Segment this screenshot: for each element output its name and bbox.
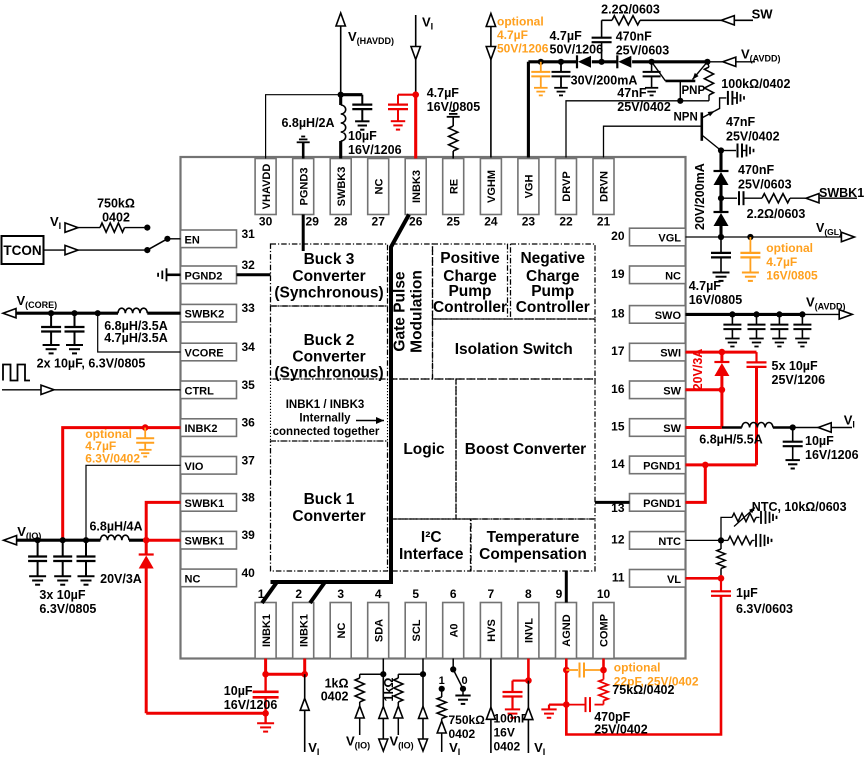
label 10uF 16V/1206 — [348, 129, 402, 157]
svg-text:NPN: NPN — [674, 112, 698, 124]
pin 16 SW (right) — [611, 381, 685, 399]
svg-text:NC: NC — [336, 623, 348, 639]
wire VGL node — [686, 221, 855, 242]
svg-text:20V/3A: 20V/3A — [100, 572, 142, 586]
pin 6 A0 (bottom) — [443, 587, 464, 659]
svg-text:A0: A0 — [448, 623, 460, 637]
svg-text:36: 36 — [242, 416, 256, 430]
wire SWI (red) — [686, 349, 757, 363]
capacitor optional 22pF (orange) — [566, 663, 603, 678]
label SWBK1 — [819, 186, 864, 200]
svg-text:TCON: TCON — [3, 243, 41, 258]
label 100nF 16V 0402 — [494, 712, 529, 754]
wire SWO rail — [686, 295, 853, 320]
svg-text:50V/1206: 50V/1206 — [550, 43, 604, 57]
wire SDA signal — [379, 674, 388, 751]
capacitor 4.7uF 16V/0805 (INBK3, red) — [388, 95, 416, 130]
capacitor 10uF 16V/1206 (HAVDD) — [341, 95, 373, 130]
pin 23 VGH (top) — [518, 159, 539, 229]
svg-text:I²C: I²C — [421, 529, 442, 546]
svg-text:Compensation: Compensation — [479, 546, 587, 563]
wire to VHAVDD pin30 — [266, 95, 341, 159]
svg-text:750kΩ: 750kΩ — [449, 713, 486, 727]
svg-text:0402: 0402 — [449, 727, 476, 741]
svg-text:SWI: SWI — [660, 348, 681, 360]
capacitor 470pF (COMP, red) — [566, 697, 603, 712]
svg-text:EN: EN — [185, 234, 200, 246]
pin 30 VHAVDD (top) — [255, 159, 276, 229]
transistor PNP — [652, 62, 708, 104]
pin 5 SCL (bottom) — [405, 587, 426, 659]
svg-text:1µF: 1µF — [736, 586, 758, 600]
svg-text:Controller: Controller — [433, 299, 507, 316]
pin 38 SWBK1 (left) — [181, 490, 256, 511]
node V(HAVDD) — [336, 13, 394, 98]
wire VL (red) — [686, 575, 725, 582]
ground AGND (red) — [541, 705, 566, 718]
svg-text:NTC, 10kΩ/0603: NTC, 10kΩ/0603 — [752, 500, 847, 514]
capacitor optional 4.7uF 50V (orange) — [531, 62, 550, 96]
pin 40 NC (left) — [181, 566, 256, 587]
label 20V/3A — [100, 572, 142, 586]
node VGHM arrows — [486, 14, 495, 158]
svg-text:47nF: 47nF — [617, 86, 647, 100]
pin 37 VIO (left) — [181, 453, 256, 474]
wire INVL (red) — [525, 659, 532, 684]
wire VIO — [86, 465, 181, 540]
label V(IO) scl — [390, 734, 414, 751]
label 75k/0402 — [612, 683, 674, 697]
node V(CORE) — [3, 293, 118, 318]
inductor 6.8uH/4A — [100, 535, 180, 543]
svg-text:RE: RE — [448, 179, 460, 194]
capacitor 100nF (INVL, red) — [503, 681, 529, 718]
wire HVS — [486, 659, 495, 754]
capacitor VIO-1 — [28, 537, 47, 585]
svg-text:4.7µH/3.5A: 4.7µH/3.5A — [104, 331, 167, 345]
svg-text:32: 32 — [242, 258, 256, 272]
label 2x10uF — [37, 356, 146, 370]
svg-text:INBK1: INBK1 — [261, 614, 273, 647]
capacitor 470nF 25V/0603 (top) — [592, 20, 612, 62]
svg-text:2.2Ω/0603: 2.2Ω/0603 — [601, 3, 660, 17]
IC package outline — [181, 157, 686, 659]
capacitor VIO-2 — [53, 537, 72, 585]
svg-text:15: 15 — [611, 420, 625, 434]
svg-text:50V/1206: 50V/1206 — [497, 42, 549, 56]
wire PGND2 to Buck3 — [237, 273, 271, 276]
svg-text:SWBK2: SWBK2 — [185, 309, 225, 321]
label 5x 10uF 25V/1206 — [772, 359, 826, 387]
svg-text:Buck 2: Buck 2 — [304, 332, 355, 349]
diode 20V/200mA #1 — [714, 151, 729, 213]
pin 11 VL (right) — [612, 570, 686, 588]
resistor 750k 0402 (EN) — [100, 223, 150, 232]
diode 30V/200mA #2 — [617, 55, 631, 68]
svg-text:CTRL: CTRL — [185, 385, 215, 397]
wire DRVN to NPN base — [604, 126, 702, 157]
block Buck 3 Converter — [271, 244, 388, 306]
svg-text:SDA: SDA — [373, 619, 385, 642]
wire SW pin15 (red) — [686, 426, 722, 429]
svg-text:25V/0603: 25V/0603 — [616, 43, 670, 57]
svg-text:Modulation: Modulation — [409, 270, 426, 353]
svg-text:20: 20 — [611, 229, 625, 243]
diode 20V/3A (red) — [139, 540, 154, 713]
label 6.8uH/4A — [89, 519, 142, 533]
label 2.2R/0603 (SWBK1) — [747, 207, 806, 221]
wire NTC node — [686, 537, 725, 543]
wire SW pin16 (red) — [686, 388, 722, 391]
svg-text:optional: optional — [614, 661, 661, 675]
svg-text:22: 22 — [559, 215, 573, 229]
wire TempComp to AGND pin9 — [565, 571, 568, 603]
label 470nF 25V/0603 (NPN) — [738, 163, 792, 192]
wire DRVP to PNP base — [566, 101, 709, 158]
note text — [273, 399, 384, 438]
capacitor optional 4.7uF (INBK2, orange) — [136, 428, 154, 457]
pin 35 CTRL (left) — [181, 378, 256, 399]
svg-text:2: 2 — [295, 587, 302, 601]
svg-text:10µF: 10µF — [805, 434, 834, 448]
svg-text:37: 37 — [242, 453, 256, 467]
svg-text:30: 30 — [259, 215, 273, 229]
capacitor optional 4.7uF (VGL, orange) — [740, 237, 760, 281]
svg-text:24: 24 — [484, 215, 498, 229]
pin 39 SWBK1 (left) — [181, 528, 256, 549]
svg-text:19: 19 — [611, 267, 625, 281]
inductor 6.8uH/2A — [341, 95, 346, 159]
wire SCL signal — [419, 674, 428, 751]
node V_I (INVL) — [524, 681, 545, 757]
svg-text:VGH: VGH — [524, 175, 536, 199]
svg-text:34: 34 — [242, 340, 256, 354]
svg-text:21: 21 — [597, 215, 611, 229]
resistor 1k/0402 (SDA) — [355, 659, 386, 736]
svg-text:0402: 0402 — [321, 690, 349, 704]
pin 20 VGL (right) — [611, 228, 685, 246]
pin 33 SWBK2 (left) — [181, 301, 256, 322]
svg-text:2.2Ω/0603: 2.2Ω/0603 — [747, 207, 806, 221]
pin 4 SDA (bottom) — [368, 587, 389, 659]
EN select switch — [147, 236, 180, 250]
wire AGND (red) — [563, 659, 570, 735]
label 4.7uF 16V/0805 (VGL) — [689, 279, 743, 307]
svg-text:3: 3 — [337, 587, 344, 601]
switch A0 — [439, 659, 468, 692]
label 6.8uH/2A — [281, 116, 334, 130]
svg-text:5: 5 — [412, 587, 419, 601]
svg-text:16V/0805: 16V/0805 — [766, 268, 818, 282]
svg-text:4.7µF: 4.7µF — [766, 255, 797, 269]
svg-text:6.3V/0805: 6.3V/0805 — [39, 602, 96, 616]
pin 7 HVS (bottom) — [480, 587, 501, 659]
node V_I (INBK3) — [411, 15, 433, 95]
svg-text:Converter: Converter — [292, 508, 365, 525]
diode 20V/3A boost (red) — [714, 352, 729, 427]
block Isolation Switch — [433, 319, 596, 379]
resistor at RE pin — [447, 111, 460, 159]
block Buck 2 Converter — [271, 306, 388, 382]
svg-text:6.8µH/5.5A: 6.8µH/5.5A — [699, 433, 762, 447]
label optional 22pF (orange) — [614, 661, 699, 689]
capacitor 1uF 6.3V/0603 (red) — [566, 578, 731, 734]
pin 14 PGND1 (right) — [611, 456, 685, 474]
svg-text:4.7µF: 4.7µF — [689, 279, 722, 293]
pin 31 EN (left) — [181, 227, 256, 248]
svg-text:INBK2: INBK2 — [185, 423, 218, 435]
label 2.2R/0603 (top) — [601, 3, 660, 17]
label 470nF 25V/0603 — [616, 29, 670, 57]
svg-text:AGND: AGND — [561, 614, 573, 646]
pin 22 DRVP (top) — [556, 159, 577, 229]
svg-text:PGND1: PGND1 — [643, 460, 681, 472]
resistor 2.2R/0603 (SW) — [602, 16, 753, 25]
svg-text:4.7µF: 4.7µF — [550, 29, 583, 43]
svg-text:Gate Pulse: Gate Pulse — [392, 271, 409, 351]
svg-text:VIO: VIO — [185, 461, 204, 473]
pin 28 SWBK3 (top) — [330, 159, 351, 229]
svg-text:INBK1 / INBK3: INBK1 / INBK3 — [286, 399, 365, 411]
svg-text:14: 14 — [611, 457, 625, 471]
pin 10 COMP (bottom) — [593, 587, 614, 659]
svg-text:Buck 1: Buck 1 — [304, 491, 355, 508]
wire TCON to switch — [44, 245, 151, 254]
block Buck 1 Converter — [271, 441, 388, 571]
wire PGND1 (red) — [686, 462, 757, 503]
diode 30V/200mA #1 — [577, 55, 591, 68]
svg-text:SWBK3: SWBK3 — [336, 167, 348, 207]
diode 20V/200mA #2 — [714, 195, 729, 237]
svg-text:6: 6 — [450, 587, 457, 601]
pin 26 INBK3 (top) — [405, 159, 426, 229]
wire SWBK1 pin38 (red) — [146, 502, 180, 540]
svg-text:6.3V/0402: 6.3V/0402 — [85, 451, 140, 465]
label optional 4.7uF 16V/0805 (orange) — [766, 241, 818, 282]
svg-text:18: 18 — [611, 306, 625, 320]
svg-text:35: 35 — [242, 378, 256, 392]
label 20V/200mA — [693, 163, 707, 230]
label optional 4.7uF 6.3V/0402 — [85, 427, 140, 466]
block Negative Charge Pump Controller — [511, 244, 596, 319]
svg-text:Negative: Negative — [520, 250, 585, 267]
label 6.8uH/5.5A — [699, 433, 762, 447]
label 6.8uH/3.5A — [104, 319, 167, 345]
svg-text:1kΩ: 1kΩ — [325, 677, 349, 691]
label optional 4.7uF 50V/1206 (orange) — [497, 15, 549, 56]
svg-text:Logic: Logic — [403, 441, 445, 458]
svg-text:25V/1206: 25V/1206 — [772, 373, 826, 387]
pin 17 SWI (right) — [611, 343, 685, 361]
svg-text:Controller: Controller — [516, 299, 590, 316]
svg-text:0402: 0402 — [494, 740, 521, 754]
resistor 75k/0402 (COMP, red) — [599, 659, 608, 705]
label 100k/0402 — [721, 77, 790, 91]
node V(IO) — [4, 524, 101, 545]
resistor 100k/0402 — [704, 62, 713, 101]
svg-text:INBK1: INBK1 — [298, 614, 310, 647]
capacitor 10uF 16V/1206 (boost) — [783, 428, 803, 469]
svg-text:750kΩ: 750kΩ — [97, 197, 135, 211]
label 30V/200mA — [571, 74, 638, 88]
svg-text:40: 40 — [242, 566, 256, 580]
label SW — [752, 7, 774, 22]
label PNP — [682, 85, 706, 97]
svg-text:Buck 3: Buck 3 — [304, 251, 355, 268]
wire CTRL — [2, 385, 181, 394]
capacitor SWO-3 — [770, 311, 788, 346]
label 20V/3A (red) — [691, 349, 705, 391]
svg-text:47nF: 47nF — [726, 115, 756, 129]
note INBK1/INBK3 internally connected — [271, 379, 388, 441]
svg-text:25V/0402: 25V/0402 — [617, 100, 671, 114]
svg-text:Pump: Pump — [531, 283, 574, 300]
pin 8 INVL (bottom) — [518, 587, 539, 659]
svg-text:4: 4 — [375, 587, 382, 601]
svg-text:SWBK1: SWBK1 — [185, 498, 225, 510]
pin 18 SWO (right) — [611, 306, 685, 324]
svg-text:HVS: HVS — [486, 619, 498, 642]
label 4.7uF 50V/1206 — [550, 29, 604, 57]
svg-text:16: 16 — [611, 382, 625, 396]
svg-text:5x 10µF: 5x 10µF — [772, 359, 818, 373]
svg-text:Isolation Switch: Isolation Switch — [455, 341, 573, 358]
label 3x10uF — [39, 588, 96, 616]
svg-text:VHAVDD: VHAVDD — [261, 164, 273, 210]
svg-text:4.7µF: 4.7µF — [497, 28, 528, 42]
svg-text:6.8µH/4A: 6.8µH/4A — [89, 519, 142, 533]
svg-text:31: 31 — [242, 227, 256, 241]
capacitor 470nF 25V/0603 (NPN) — [718, 144, 754, 158]
label 47nF 25V/0402 (bus) — [617, 86, 671, 114]
pin 24 VGHM (top) — [480, 159, 501, 229]
svg-text:470nF: 470nF — [738, 163, 774, 177]
capacitor SWO-1 — [723, 311, 741, 346]
svg-text:20V/3A: 20V/3A — [691, 349, 705, 391]
pin 1 INBK1 (bottom) — [255, 587, 276, 659]
label NPN — [674, 112, 698, 124]
svg-text:20V/200mA: 20V/200mA — [693, 163, 707, 230]
svg-text:27: 27 — [372, 215, 386, 229]
capacitor VCORE-1 — [41, 310, 61, 353]
label 1k 0402 — [321, 677, 349, 704]
svg-text:4.7µF: 4.7µF — [427, 86, 460, 100]
svg-text:NC: NC — [185, 573, 201, 585]
node V_I (INBK1) — [300, 674, 319, 757]
wire INBK2 (red) — [63, 424, 181, 540]
svg-text:NC: NC — [665, 270, 681, 282]
wire Boost to PGND1 pin13 — [595, 501, 630, 504]
svg-text:Positive: Positive — [440, 250, 500, 267]
svg-text:100kΩ/0402: 100kΩ/0402 — [721, 77, 790, 91]
svg-text:3x 10µF: 3x 10µF — [39, 588, 85, 602]
svg-text:16V/1206: 16V/1206 — [348, 143, 402, 157]
pin 25 RE (top) — [443, 159, 464, 229]
svg-text:PGND1: PGND1 — [643, 498, 681, 510]
svg-text:Converter: Converter — [292, 349, 365, 366]
svg-text:Internally: Internally — [299, 413, 351, 425]
wire PGND3 to Buck3 — [302, 215, 305, 252]
svg-text:2x 10µF, 6.3V/0805: 2x 10µF, 6.3V/0805 — [37, 356, 146, 370]
svg-text:470nF: 470nF — [616, 29, 652, 43]
svg-text:SW: SW — [663, 423, 681, 435]
thermistor NTC 10k/0603 — [721, 508, 777, 541]
svg-text:Temperature: Temperature — [487, 529, 580, 546]
resistor 750k (A0) — [437, 689, 460, 757]
wire INBK1 pins (red) — [262, 659, 308, 678]
CTRL squarewave glyph — [3, 365, 30, 381]
capacitor SWO-4 — [793, 311, 811, 346]
svg-text:33: 33 — [242, 301, 256, 315]
resistor+capacitor NTC branch — [721, 534, 772, 547]
svg-text:Interface: Interface — [399, 546, 464, 563]
svg-text:23: 23 — [522, 215, 536, 229]
pin 15 SW (right) — [611, 419, 685, 437]
svg-text:Boost Converter: Boost Converter — [465, 441, 586, 458]
pin 32 PGND2 (left) — [181, 258, 256, 284]
pin 27 NC (top) — [368, 159, 389, 229]
svg-text:26: 26 — [409, 215, 423, 229]
svg-text:0: 0 — [462, 675, 468, 687]
svg-text:16V/1206: 16V/1206 — [805, 448, 859, 462]
svg-text:38: 38 — [242, 490, 256, 504]
svg-text:Converter: Converter — [292, 268, 365, 285]
svg-text:10µF: 10µF — [224, 684, 253, 698]
svg-text:VGL: VGL — [658, 233, 681, 245]
svg-text:16V: 16V — [494, 726, 515, 740]
svg-text:16V/0805: 16V/0805 — [689, 293, 743, 307]
svg-text:25V/0402: 25V/0402 — [594, 723, 648, 737]
svg-text:10µF: 10µF — [348, 129, 377, 143]
block I2C Interface — [392, 519, 471, 571]
pin 36 INBK2 (left) — [181, 416, 256, 437]
label 750k — [97, 197, 135, 225]
label 1k rotated — [382, 678, 396, 702]
svg-text:6.8µH/2A: 6.8µH/2A — [281, 116, 334, 130]
pin 13 PGND1 (right) — [611, 494, 685, 515]
transistor NPN — [702, 98, 727, 151]
label V(IO) sda — [346, 734, 370, 751]
node V_I (EN pull-up) — [50, 214, 100, 232]
svg-text:COMP: COMP — [599, 614, 611, 647]
ground at PGND2 — [158, 268, 180, 281]
pin 3 NC (bottom) — [330, 587, 351, 659]
svg-text:DRVN: DRVN — [599, 171, 611, 202]
svg-text:9: 9 — [556, 587, 563, 601]
block Temperature Compensation — [471, 519, 595, 571]
svg-text:Pump: Pump — [448, 283, 491, 300]
svg-text:1kΩ: 1kΩ — [382, 678, 396, 702]
svg-text:SCL: SCL — [411, 619, 423, 641]
node V(AVDD) top — [707, 47, 780, 67]
label 750k 0402 (A0) — [449, 713, 486, 741]
capacitor+resistor to SWBK1 — [721, 191, 857, 205]
svg-text:25: 25 — [447, 215, 461, 229]
svg-text:8: 8 — [525, 587, 532, 601]
svg-text:SWBK1: SWBK1 — [185, 536, 225, 548]
capacitor 47nF 25V/0402 (bus) — [643, 62, 661, 96]
capacitor 47nF 25V/0402 (NPN) — [728, 91, 744, 105]
capacitor 5th 10uF (red) — [747, 362, 767, 465]
TCON box — [2, 236, 44, 264]
svg-text:(Synchronous): (Synchronous) — [274, 285, 383, 302]
svg-text:7: 7 — [488, 587, 495, 601]
label 10uF 16V/1206 (boost) — [805, 434, 859, 462]
wire VCORE sense — [95, 310, 181, 352]
svg-text:75kΩ/0402: 75kΩ/0402 — [612, 683, 674, 697]
svg-text:SW: SW — [752, 7, 774, 22]
pin 21 DRVN (top) — [593, 159, 614, 229]
